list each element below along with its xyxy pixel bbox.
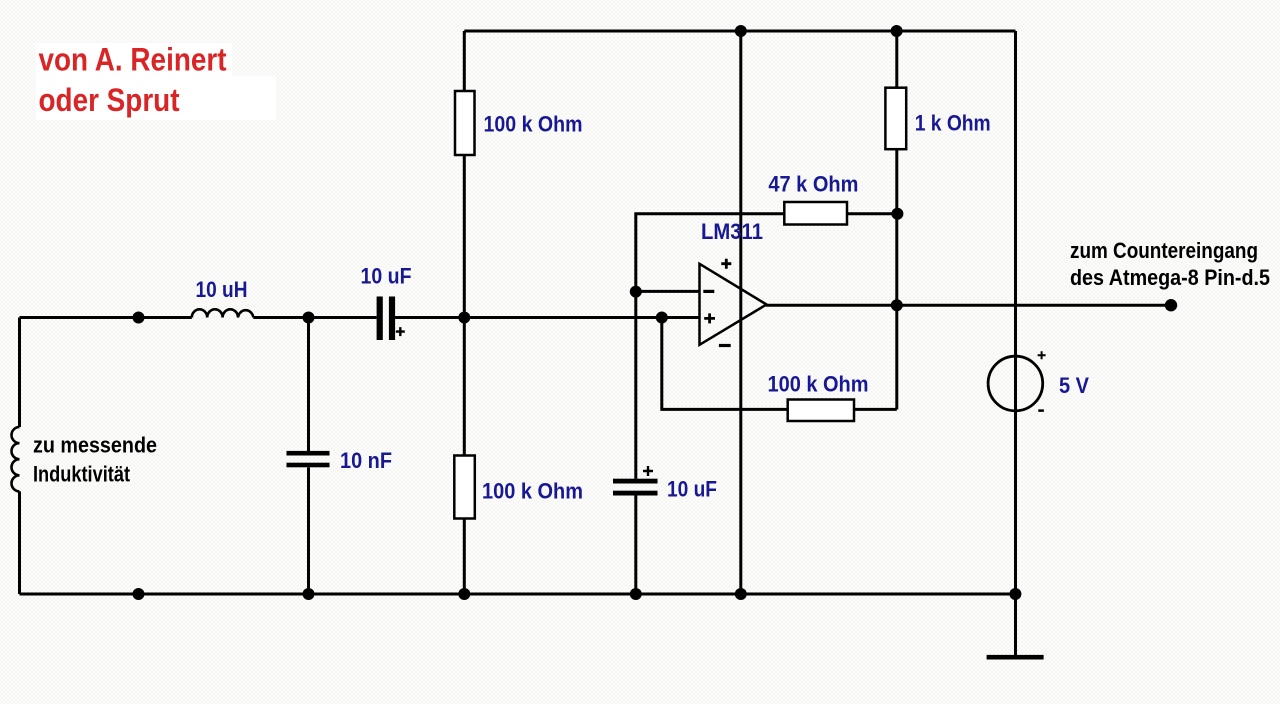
junction dot bottom rail 3	[458, 588, 470, 600]
wire left vertical upper	[18, 318, 21, 428]
terminal dot output end	[1165, 299, 1177, 311]
svg-text:zum Countereingang: zum Countereingang	[1070, 238, 1258, 263]
wire inverting input stub	[636, 290, 700, 293]
wire non-inverting node down and right through 100k feedback	[662, 318, 897, 410]
svg-text:10 nF: 10 nF	[340, 448, 392, 473]
inductor to measure (vertical coil)	[11, 427, 19, 491]
resistor 100k feedback (R5)	[788, 400, 854, 422]
capacitor 10uF bottom plates	[613, 479, 658, 496]
junction dot bottom rail 5	[735, 588, 747, 600]
svg-text:47 k Ohm: 47 k Ohm	[768, 172, 858, 197]
junction dot main line left	[133, 312, 145, 324]
voltage source plus symbol	[1038, 351, 1046, 359]
voltage source 5V circle	[988, 356, 1043, 411]
junction dot main line at supply column	[458, 312, 470, 324]
svg-text:10 uH: 10 uH	[196, 277, 248, 302]
svg-text:oder Sprut: oder Sprut	[39, 82, 180, 118]
svg-text:100 k Ohm: 100 k Ohm	[768, 372, 869, 397]
junction dot top rail at 1k	[891, 25, 903, 37]
junction dot inverting input tap	[630, 286, 642, 298]
svg-text:100 k Ohm: 100 k Ohm	[484, 112, 583, 137]
junction dot bottom rail 1	[133, 588, 145, 600]
capacitor 10uF series polarity plus	[396, 327, 405, 336]
junction dot top rail mid	[735, 25, 747, 37]
capacitor 10uF bottom polarity plus	[643, 466, 653, 476]
wire top rail	[464, 30, 1015, 33]
svg-text:1 k Ohm: 1 k Ohm	[915, 111, 991, 136]
junction dot 47k right	[891, 208, 903, 220]
svg-text:LM311: LM311	[701, 219, 763, 244]
wire below bottom 10uF cap	[634, 496, 637, 595]
junction dot output node	[891, 299, 903, 311]
wire 5V supply vertical down to ground	[1014, 31, 1017, 656]
junction dot bottom rail right end	[1009, 588, 1021, 600]
resistor 100k upper (R1)	[455, 91, 475, 155]
op-amp inverting input minus symbol	[703, 290, 714, 293]
wire bottom rail	[20, 593, 1016, 596]
svg-text:10 uF: 10 uF	[667, 477, 717, 502]
capacitor 10uF series plates	[377, 297, 396, 341]
svg-text:von A. Reinert: von A. Reinert	[39, 42, 227, 78]
wire left supply vertical through 100k resistors	[463, 31, 466, 594]
junction dot bottom rail 4	[630, 588, 642, 600]
white box behind title	[36, 43, 276, 120]
wire main signal horizontal right of 10uF cap	[395, 316, 700, 319]
ground symbol	[987, 655, 1044, 660]
op-amp U1 LM311 triangle	[700, 264, 767, 345]
wire 10nF branch lower	[307, 467, 310, 594]
svg-text:Induktivität: Induktivität	[33, 462, 131, 487]
wire right vertical (1k / 47k / output / 100k feedback column)	[895, 31, 898, 409]
op-amp V+ plus symbol	[721, 259, 731, 269]
op-amp V- minus symbol	[719, 344, 731, 347]
junction dot main line at 10nF branch	[303, 312, 315, 324]
resistor 47k (R4)	[784, 202, 847, 225]
capacitor 10nF plates	[287, 451, 330, 467]
inductor 10uH coil	[192, 309, 253, 317]
wire 47k feedback node: horizontal to right junction and vertical down to 10uF cap	[636, 214, 898, 479]
resistor 100k lower (R2)	[454, 456, 475, 519]
wire main between coil and cap	[253, 316, 376, 319]
svg-text:zu messende: zu messende	[33, 433, 157, 458]
svg-text:100 k Ohm: 100 k Ohm	[482, 479, 583, 504]
wire op-amp output to terminal	[766, 304, 1171, 307]
junction dot bottom rail 2	[303, 588, 315, 600]
voltage source minus symbol	[1038, 409, 1044, 412]
junction dot non-inverting node	[656, 312, 668, 324]
wire 10nF branch upper	[307, 318, 310, 452]
wire left vertical lower	[18, 491, 21, 594]
wire main signal horizontal left of 10uF cap	[20, 316, 192, 319]
wire mid vertical through op-amp	[739, 31, 742, 594]
op-amp non-inverting input plus symbol	[704, 313, 715, 323]
svg-text:des Atmega-8 Pin-d.5: des Atmega-8 Pin-d.5	[1070, 265, 1270, 290]
resistor 1k (R3)	[885, 88, 906, 150]
svg-text:5 V: 5 V	[1059, 373, 1089, 398]
svg-text:10 uF: 10 uF	[361, 264, 412, 289]
